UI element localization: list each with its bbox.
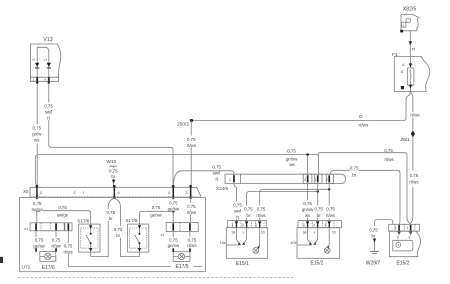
svg-text:rt/ws: rt/ws [187, 210, 197, 215]
wire A gn/sw from X5 pin1 [35, 155, 318, 186]
svg-text:sw/ge: sw/ge [57, 212, 69, 217]
svg-text:8: 8 [409, 235, 411, 239]
svg-text:0,75: 0,75 [384, 148, 393, 153]
connector X24/6 housing [225, 174, 346, 183]
fuse element [407, 68, 414, 85]
arrow on wire [409, 41, 412, 45]
X5 pin 3 [189, 185, 192, 199]
svg-text:250/2: 250/2 [177, 122, 189, 128]
svg-text:S17/6: S17/6 [77, 218, 89, 223]
component box U71 [20, 198, 206, 272]
wire X24/6 pin2 down [328, 184, 330, 221]
junction dots mid rails [328, 188, 331, 191]
bulb E15/1 [253, 248, 259, 254]
svg-text:2: 2 [313, 224, 315, 228]
svg-text:E15/2: E15/2 [310, 261, 323, 267]
wire E17/5 right pin to bulb [189, 232, 191, 252]
svg-text:gn/w: gn/w [32, 132, 42, 137]
svg-text:x1: x1 [25, 227, 29, 231]
connector row E17/6 [30, 223, 72, 231]
E15/1 internal wires [236, 228, 246, 244]
svg-text:rt/ws: rt/ws [187, 143, 197, 148]
wire B rt/ws [318, 153, 410, 224]
svg-text:1: 1 [83, 191, 85, 195]
svg-text:10: 10 [332, 231, 336, 235]
wire S17/5 bottom [139, 252, 141, 257]
svg-text:0,75: 0,75 [58, 205, 67, 210]
pin block F1 [401, 86, 404, 89]
svg-text:0,75: 0,75 [287, 149, 296, 154]
X24/6 pin bars [233, 175, 330, 182]
svg-text:0,75: 0,75 [350, 166, 359, 171]
strip pin numbers [40, 191, 188, 195]
lamp symbol E15/2 right [393, 240, 413, 251]
wire X5 pin6 br fork left [91, 198, 115, 256]
svg-text:1: 1 [395, 226, 397, 230]
bulb E17/6 [40, 252, 56, 262]
wire E17/6 pin left to bulb [35, 231, 37, 252]
svg-text:br: br [371, 234, 375, 239]
svg-text:gn/sw: gn/sw [286, 157, 298, 162]
svg-text:10e: 10e [220, 241, 226, 245]
svg-text:W29/7: W29/7 [366, 260, 381, 266]
svg-text:0,75: 0,75 [187, 137, 196, 142]
label E15/2 mid feed [302, 200, 314, 218]
frame dash left edge [0, 257, 3, 263]
svg-text:gn/sw: gn/sw [302, 207, 314, 212]
svg-text:E15/1: E15/1 [236, 261, 249, 267]
svg-text:2: 2 [74, 191, 76, 195]
svg-text:0,75: 0,75 [326, 207, 335, 212]
E15/2 right pin numbers [395, 226, 411, 240]
svg-text:1: 1 [255, 224, 257, 228]
svg-text:ge/sw: ge/sw [168, 206, 180, 211]
lamp box E15/2 right [389, 231, 420, 257]
svg-text:1: 1 [303, 224, 305, 228]
connector row E15/2 right [389, 224, 420, 231]
svg-text:v1: v1 [32, 58, 36, 62]
wire V13 left down to X5 [36, 84, 38, 187]
svg-text:3a: 3a [232, 231, 236, 235]
E17/6 pins [35, 223, 69, 230]
connector strip X5 [30, 187, 201, 196]
wire S17/6 bottom [90, 252, 92, 257]
svg-text:ge/sw: ge/sw [33, 243, 45, 248]
svg-text:sw/l: sw/l [234, 209, 242, 214]
svg-text:f1: f1 [401, 70, 404, 74]
wire X5 pin1 to E17/6 [36, 198, 38, 223]
svg-text:1: 1 [229, 178, 231, 182]
svg-text:0,75: 0,75 [107, 210, 116, 215]
switch S17/5 [128, 224, 149, 252]
svg-text:0,75: 0,75 [410, 173, 419, 178]
E15/2 internal wires [308, 228, 318, 244]
svg-text:0,75: 0,75 [44, 104, 53, 109]
svg-text:3a: 3a [303, 231, 307, 235]
svg-text:4: 4 [304, 178, 306, 182]
svg-text:sw/ge: sw/ge [31, 207, 43, 212]
svg-text:2: 2 [326, 178, 328, 182]
labels E17/6 pins [33, 237, 63, 248]
svg-text:br: br [109, 216, 113, 221]
X24/6 pin numbers [229, 178, 328, 182]
wire br rail X24/6 to E15/2 [330, 170, 400, 224]
arrow W29/7 [373, 238, 376, 242]
label wire Z6/1 rt/ws [408, 172, 421, 187]
arrow fuse top [409, 63, 412, 67]
svg-text:0,75: 0,75 [52, 238, 61, 243]
wire V13 internal left [36, 47, 38, 77]
svg-text:ge/sw: ge/sw [168, 243, 180, 248]
svg-text:0,75: 0,75 [33, 126, 42, 131]
dashed separator bottom [18, 277, 293, 279]
svg-text:0,75: 0,75 [244, 207, 253, 212]
wires into E15/2 right pins [399, 231, 411, 235]
arrow fuse bottom [409, 85, 412, 89]
svg-text:br: br [246, 213, 250, 218]
label W29/7 wire [369, 226, 380, 239]
svg-text:8: 8 [397, 235, 399, 239]
wire X5 pin4 to X24/6 [173, 171, 234, 186]
svg-text:rt/ws: rt/ws [409, 180, 419, 185]
svg-text:0,75: 0,75 [35, 238, 44, 243]
label E15/1 feed [232, 202, 244, 220]
bulb E15/2 mid [324, 248, 330, 254]
label E15/1 br [244, 206, 254, 219]
svg-text:0,75: 0,75 [109, 169, 118, 174]
switch S17/6 [79, 224, 100, 252]
label 250/2 wire rt/ws [186, 136, 198, 149]
wire X5 pin3 to E17/5 [189, 198, 191, 222]
svg-text:rt/ws: rt/ws [410, 113, 420, 118]
svg-text:1: 1 [406, 226, 408, 230]
svg-text:10: 10 [261, 231, 265, 235]
svg-text:1: 1 [314, 178, 316, 182]
svg-text:br: br [111, 174, 115, 179]
svg-text:X24/6: X24/6 [216, 186, 228, 191]
labels br fork [106, 209, 124, 238]
wire W10 to X5 [113, 166, 115, 186]
svg-text:rt/sw: rt/sw [52, 243, 62, 248]
connector row E15/1 [228, 221, 267, 228]
svg-text:0,75: 0,75 [212, 165, 221, 170]
ground symbol W29/7 [370, 251, 378, 253]
svg-text:1: 1 [232, 224, 234, 228]
label V13 left wire [31, 124, 43, 144]
label E15/2 rt/ws [325, 206, 336, 219]
internal ground rail U71 [68, 266, 202, 268]
svg-text:0,75: 0,75 [169, 237, 178, 242]
svg-text:6: 6 [118, 191, 120, 195]
X5 pin 1 [36, 185, 39, 199]
svg-text:rt/ws: rt/ws [256, 213, 266, 218]
E15/1 pin numbers [232, 224, 265, 235]
wire F1 to Z6/1 [410, 92, 413, 224]
svg-text:S17/5: S17/5 [125, 218, 137, 223]
V13 pin numbers [33, 78, 47, 82]
svg-text:0,75: 0,75 [187, 204, 196, 209]
wire X24/6 pin1 down to E15/1 [234, 184, 237, 221]
svg-text:U71: U71 [22, 265, 31, 271]
svg-text:0,75: 0,75 [257, 207, 266, 212]
connector row E15/2 mid [298, 221, 342, 228]
wire 250/2 down to X5 pin 3 [190, 121, 192, 187]
label W10 wire 0,75 br [108, 168, 119, 179]
E15/2 mid pin numbers [303, 224, 336, 235]
svg-text:4: 4 [168, 191, 170, 195]
ground point W10 [109, 165, 117, 167]
svg-text:0,75: 0,75 [64, 244, 73, 249]
svg-text:1: 1 [325, 224, 327, 228]
svg-text:E17/5: E17/5 [175, 264, 188, 270]
wire E17/6 pin3 to ground rail [67, 231, 69, 267]
wire X5 pin6 br fork right [114, 198, 139, 256]
lamp box E15/1 [226, 228, 267, 259]
svg-text:X82/5: X82/5 [403, 7, 417, 13]
wire X82/5 to F1 [409, 31, 411, 57]
connector row E17/5 [166, 223, 198, 232]
label rt/ws at F1 split [410, 112, 421, 118]
diode V2 [47, 63, 51, 69]
label E15/1 rt/ws [256, 206, 267, 219]
svg-text:3: 3 [186, 191, 188, 195]
label E17/6 pin3 wire [63, 243, 74, 255]
node 250/2 [190, 119, 193, 122]
node Z6/1 [411, 131, 415, 138]
svg-text:ws: ws [305, 213, 311, 218]
pin square X82/5 [400, 30, 403, 33]
svg-text:2: 2 [242, 224, 244, 228]
wire branch to S17/6 [37, 211, 91, 225]
wire to ground W29/7 [375, 220, 393, 252]
svg-text:0,75: 0,75 [169, 200, 178, 205]
label wire br rail [350, 166, 360, 178]
svg-text:br: br [317, 213, 321, 218]
diode V1 [35, 63, 39, 69]
wire E17/5 left pin to bulb [172, 232, 174, 252]
wire F1 to junction split [404, 92, 411, 121]
connector X82/5 [401, 15, 419, 31]
svg-text:rt/ws: rt/ws [326, 213, 336, 218]
svg-text:rt/ws: rt/ws [187, 243, 197, 248]
svg-text:0,75: 0,75 [33, 201, 42, 206]
wire X24/6 pin1b down [317, 184, 319, 221]
svg-text:ge/sw: ge/sw [150, 213, 162, 218]
svg-text:W10: W10 [106, 159, 116, 165]
labels E17/5 pins [168, 237, 198, 248]
svg-text:x: x [243, 231, 245, 235]
diode designators [32, 58, 47, 62]
svg-text:10e: 10e [291, 241, 297, 245]
pin 1 of V13 [36, 77, 38, 84]
wire X24/6 pin4 vertical through [307, 156, 309, 221]
svg-text:v3: v3 [44, 58, 48, 62]
svg-text:rt/ws: rt/ws [359, 123, 369, 128]
svg-text:sw/l: sw/l [45, 110, 53, 115]
svg-text:ws: ws [34, 138, 40, 143]
diode module V13 [30, 44, 60, 81]
svg-text:X5: X5 [23, 189, 29, 194]
junction dot [36, 209, 39, 212]
svg-text:0,75: 0,75 [188, 237, 197, 242]
svg-text:rt/ws: rt/ws [384, 157, 394, 162]
wire C sw/rt from V13 [49, 84, 173, 186]
label E15/2 br [314, 206, 324, 219]
svg-text:0,75: 0,75 [152, 205, 161, 210]
svg-text:0,75: 0,75 [314, 207, 323, 212]
bulb E17/5 [173, 252, 190, 262]
lamp box E15/2 mid [297, 228, 340, 259]
fuse box F1 [394, 57, 430, 92]
svg-text:x: x [314, 231, 316, 235]
labels E17/5 feed wires [168, 199, 197, 215]
X5 pin 4 [172, 185, 175, 199]
svg-text:ws: ws [289, 162, 295, 167]
svg-text:Z6/1: Z6/1 [400, 137, 410, 143]
svg-text:0,75: 0,75 [369, 227, 378, 232]
svg-text:sw/l: sw/l [213, 171, 221, 176]
svg-text:rt/ws: rt/ws [63, 249, 73, 254]
svg-text:E17/6: E17/6 [42, 265, 55, 271]
wire D horizontal bus [192, 120, 404, 122]
svg-text:0,75: 0,75 [233, 203, 242, 208]
svg-text:E15/2: E15/2 [396, 260, 409, 266]
svg-text:2: 2 [40, 191, 42, 195]
svg-text:x1: x1 [161, 233, 165, 237]
svg-text:br: br [352, 172, 356, 177]
wire br rail E15/1 to E15/2 [247, 191, 318, 220]
wire V13 internal right [48, 52, 50, 78]
svg-text:V13: V13 [43, 37, 52, 43]
pin 4 of V13 [48, 77, 50, 84]
svg-text:F1: F1 [392, 52, 398, 58]
arrow on W10 wire [112, 180, 115, 184]
svg-text:br: br [116, 233, 120, 238]
wire rt/ws rail E15/1 to E15/2 [260, 189, 330, 220]
wire A/B node down to X24/6 pin [317, 153, 319, 175]
label E17/6 feed [31, 200, 43, 212]
wire E17/6 pin right to bulb [55, 231, 57, 252]
svg-text:0,75: 0,75 [114, 227, 123, 232]
X5 pin 6 (W10) [113, 185, 116, 199]
wire branch to S17/5 [140, 211, 174, 225]
svg-text:0,75: 0,75 [303, 201, 312, 206]
wire X5 pin4 to E17/5 [172, 198, 174, 222]
label V13 right wire [43, 103, 55, 121]
